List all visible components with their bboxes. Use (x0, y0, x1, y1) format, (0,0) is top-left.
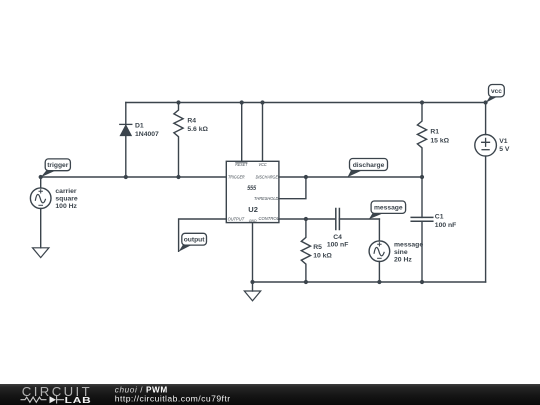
svg-text:output: output (184, 237, 206, 244)
resistor R4 (174, 103, 183, 178)
ground (carrier) (33, 248, 49, 258)
wire control net (left of C4) (279, 218, 336, 220)
svg-text:discharge: discharge (353, 162, 385, 169)
flag message (369, 201, 406, 219)
flag trigger (41, 159, 71, 177)
wire trigger net horizontal (41, 176, 227, 178)
wire GND pin to bottom rail (252, 223, 254, 282)
flag vcc (486, 85, 505, 103)
svg-text:message: message (374, 205, 403, 212)
wire output net (179, 219, 227, 251)
svg-text:GND: GND (249, 219, 257, 223)
svg-text:RESET: RESET (235, 162, 248, 167)
ground (U2 GND) (244, 282, 260, 301)
svg-text:LAB: LAB (65, 396, 92, 405)
wire message source drop (378, 219, 380, 241)
resistor R5 (301, 219, 310, 282)
junction trigger / D1 (124, 175, 128, 179)
junction bottom rail / ground (250, 280, 254, 284)
flag output (179, 233, 207, 251)
wire threshold branch (279, 177, 306, 199)
voltage source carrier (square 100 Hz) (30, 188, 51, 209)
wire RESET pin to top rail (241, 103, 243, 162)
svg-text:OUTPUT: OUTPUT (228, 216, 245, 221)
wire message source to bottom rail (378, 262, 380, 283)
wire top rail (vcc net) (126, 102, 486, 104)
junction discharge / threshold (304, 175, 308, 179)
junction bottom rail / R5 (304, 280, 308, 284)
junction bottom rail / message (377, 280, 381, 284)
wire VCC pin to top rail (262, 103, 264, 162)
junction bottom rail / C1 (420, 280, 424, 284)
junction trigger / carrier (39, 175, 43, 179)
svg-text:CONTROL: CONTROL (259, 216, 280, 221)
voltage source V1 (5 V) (475, 135, 497, 157)
svg-text:THRESHOLD: THRESHOLD (254, 196, 278, 201)
svg-text:trigger: trigger (47, 162, 69, 169)
svg-text:vcc: vcc (491, 88, 502, 95)
wire discharge net (279, 176, 422, 178)
wire vcc flag node to V1 (485, 103, 487, 135)
junction discharge / R1 C1 (420, 175, 424, 179)
svg-text:U2: U2 (248, 205, 258, 214)
svg-text:DISCHARGE: DISCHARGE (256, 174, 279, 179)
capacitor C4 (336, 209, 340, 230)
svg-text:carriersquare100 Hz: carriersquare100 Hz (55, 188, 78, 210)
junction vcc node (484, 100, 488, 104)
svg-text:555: 555 (247, 185, 256, 192)
junction control / R5 (304, 217, 308, 221)
flag discharge (348, 159, 388, 178)
CircuitLab logo resistor-diode glyph (21, 396, 65, 404)
svg-text:VCC: VCC (259, 162, 268, 167)
diode D1 (120, 103, 132, 178)
wire carrier source to trigger net (40, 177, 42, 188)
svg-text:TRIGGER: TRIGGER (228, 174, 245, 179)
junction top rail / RESET (240, 100, 244, 104)
resistor R1 (417, 103, 426, 178)
voltage source message (sine 20 Hz) (369, 241, 390, 262)
capacitor C1 (411, 177, 433, 282)
IC U2 555 timer body (226, 161, 279, 222)
svg-text:http://circuitlab.com/cu79ftr: http://circuitlab.com/cu79ftr (115, 394, 231, 404)
wire V1 to bottom rail (485, 156, 487, 282)
pin label RESET (with overline) (235, 162, 248, 167)
wire control net (right of C4) (339, 218, 379, 220)
junction top rail / R1 (420, 100, 424, 104)
junction top rail / VCC (260, 100, 264, 104)
junction trigger / R4 (176, 175, 180, 179)
junction top rail / R4 (176, 100, 180, 104)
wire bottom rail (253, 281, 486, 283)
wire carrier source to ground (40, 209, 42, 248)
